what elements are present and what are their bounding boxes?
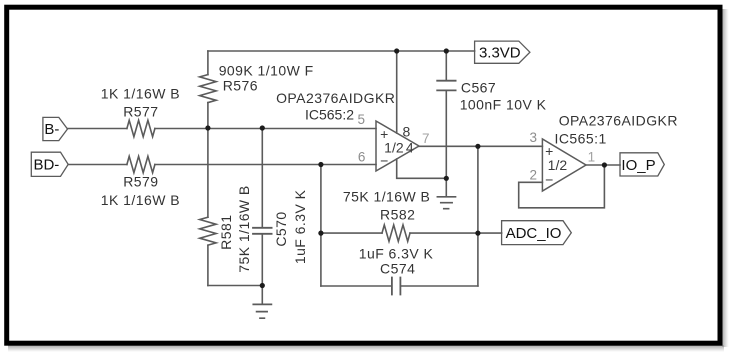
- svg-text:BD-: BD-: [33, 157, 59, 174]
- svg-text:8: 8: [403, 124, 411, 140]
- svg-text:C570: C570: [273, 211, 289, 246]
- svg-text:2: 2: [529, 168, 537, 183]
- capacitor C570: [261, 128, 263, 227]
- svg-text:R582: R582: [380, 207, 415, 223]
- resistor R582: [321, 232, 382, 234]
- wire output to IO_P: [586, 164, 620, 166]
- port 3.3VD: [475, 41, 530, 63]
- wire BD- to R579: [68, 164, 127, 166]
- svg-text:100nF 10V K: 100nF 10V K: [460, 97, 547, 113]
- wire R577 to op-amp pin5: [155, 128, 376, 130]
- svg-text:7: 7: [422, 131, 430, 146]
- wire pin2 feedback loop: [519, 165, 605, 208]
- svg-text:−: −: [545, 172, 553, 188]
- svg-text:909K 1/10W F: 909K 1/10W F: [219, 63, 314, 79]
- capacitor C567: [445, 51, 447, 80]
- capacitor C574: [321, 285, 392, 287]
- port B-: [43, 117, 68, 140]
- svg-text:C567: C567: [461, 80, 496, 96]
- ground below C570: [261, 286, 263, 305]
- ground below C567: [445, 178, 447, 196]
- wire B- to R577: [68, 128, 127, 130]
- port IO_P: [620, 153, 664, 176]
- resistor R579: [127, 156, 155, 172]
- svg-text:3: 3: [529, 130, 537, 145]
- resistor R581: [207, 128, 209, 217]
- svg-text:1: 1: [588, 150, 596, 165]
- svg-text:IC565:1: IC565:1: [555, 131, 607, 147]
- wire R579 to op-amp pin6: [155, 164, 376, 166]
- svg-text:1K 1/16W B: 1K 1/16W B: [101, 86, 180, 102]
- svg-text:6: 6: [358, 150, 366, 165]
- svg-text:ADC_IO: ADC_IO: [506, 225, 562, 242]
- wire pin8 to rail: [396, 51, 398, 133]
- svg-text:B-: B-: [44, 121, 59, 138]
- svg-text:R581: R581: [218, 215, 234, 250]
- svg-text:R579: R579: [123, 174, 158, 190]
- svg-text:75K 1/16W B: 75K 1/16W B: [236, 185, 252, 272]
- svg-text:75K 1/16W B: 75K 1/16W B: [343, 189, 430, 205]
- wire to ADC_IO port: [478, 232, 502, 234]
- svg-text:3.3VD: 3.3VD: [479, 45, 521, 62]
- svg-text:R577: R577: [123, 104, 158, 120]
- svg-text:OPA2376AIDGKR: OPA2376AIDGKR: [559, 113, 678, 129]
- wire pin4 to ground: [397, 159, 447, 178]
- svg-text:R576: R576: [223, 78, 258, 94]
- svg-text:IC565:2: IC565:2: [305, 107, 354, 123]
- svg-text:1K 1/16W B: 1K 1/16W B: [101, 192, 180, 208]
- svg-text:IO_P: IO_P: [621, 157, 655, 174]
- svg-text:5: 5: [358, 112, 366, 127]
- wire feedback column (node ADC_IO): [477, 146, 479, 286]
- op-amp U1 IC565:2 triangle: [376, 121, 419, 171]
- svg-text:4: 4: [406, 139, 414, 155]
- svg-text:1uF 6.3V K: 1uF 6.3V K: [292, 189, 308, 264]
- resistor R576: [207, 51, 209, 75]
- wire bottom left: [208, 285, 262, 287]
- svg-text:C574: C574: [380, 261, 415, 277]
- resistor R577: [127, 120, 155, 136]
- wire pin6 node down: [320, 165, 322, 287]
- port ADC_IO: [502, 221, 572, 245]
- svg-text:OPA2376AIDGKR: OPA2376AIDGKR: [276, 90, 395, 106]
- svg-text:1/2: 1/2: [548, 157, 568, 173]
- wire top rail 3.3VD: [208, 50, 475, 52]
- svg-text:1/2: 1/2: [384, 139, 404, 155]
- wire op-amp1 output to op-amp2 pin3: [419, 145, 542, 147]
- op-amp U2 IC565:1 triangle: [542, 139, 586, 191]
- port BD-: [31, 152, 68, 176]
- svg-text:1uF 6.3V K: 1uF 6.3V K: [359, 246, 434, 262]
